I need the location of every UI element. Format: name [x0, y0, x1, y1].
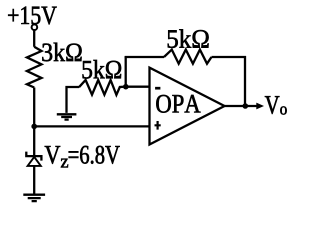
zener D1 anode triangle: [28, 157, 41, 166]
R2 value label 5k ohm: [83, 60, 122, 79]
wire: R2 left lead down to ground: [67, 87, 80, 113]
zener D1 cathode bar: [26, 152, 41, 161]
+15V terminal circle: [32, 24, 38, 30]
wire: op-amp output: [225, 105, 258, 107]
resistor R1 3k ohm (vertical zigzag): [27, 47, 42, 88]
ground symbol (below R2 left lead): [57, 114, 77, 119]
resistor R3 5k ohm feedback (horizontal zigzag): [164, 50, 212, 64]
wire: R1 to node A: [33, 88, 35, 127]
ground symbol (below zener): [23, 195, 45, 201]
wire: feedback right segment: [212, 56, 247, 58]
resistor R2 5k ohm (horizontal zigzag): [79, 80, 123, 95]
Vo output label: [265, 96, 280, 114]
wire: zener D1 to ground: [33, 166, 35, 194]
wire: feedback down to output node C: [244, 56, 246, 106]
wire: node A down to zener D1: [33, 126, 35, 155]
R1 value label 3k ohm: [42, 43, 81, 62]
wire: node A to op-amp non-inverting input: [34, 125, 149, 127]
Vz=6.8V label: [45, 146, 61, 164]
+15V supply label: [8, 7, 57, 25]
R3 value label 5k ohm: [168, 29, 209, 48]
wire: node B to op-amp inverting input: [123, 86, 150, 88]
op-amp non-inverting input plus marker: [155, 121, 161, 130]
op-amp label OPA: [156, 95, 200, 113]
output arrowhead: [256, 103, 264, 110]
op-amp U1 triangle: [150, 68, 225, 145]
node B junction dot: [123, 84, 129, 90]
wire: node B up to feedback branch: [125, 57, 127, 87]
node A junction dot: [31, 124, 37, 130]
node C junction dot: [243, 103, 249, 109]
wire: feedback left segment: [125, 56, 164, 58]
op-amp inverting input minus marker: [155, 87, 160, 90]
wire: +15V terminal to R1: [33, 30, 35, 47]
